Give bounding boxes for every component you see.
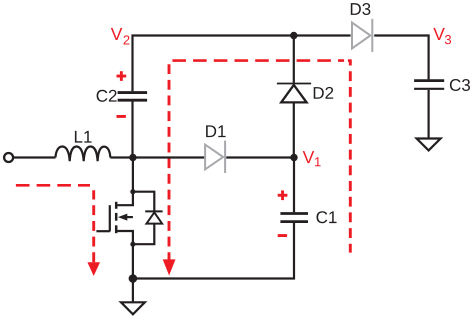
junction node Q1 drain (130, 189, 135, 194)
body diode of Q1 (145, 211, 162, 223)
node label V2 (111, 28, 123, 40)
wire D2 anode down to node V1 (293, 103, 295, 157)
transistor Q1 MOSFET source lead (117, 231, 133, 244)
transistor Q1 MOSFET body lead with arrow (127, 216, 133, 218)
red dashed big loop top horizontal (169, 59, 344, 62)
junction node Q1 source (130, 242, 135, 247)
wire L1 to D1 anode (110, 156, 205, 158)
minus sign C2 (117, 115, 126, 118)
wire C3 bottom to ground (428, 90, 430, 139)
transistor Q1 MOSFET gate lead (96, 230, 109, 232)
capacitor C3 (414, 79, 444, 82)
input terminal circle (4, 153, 13, 162)
transistor Q1 MOSFET channel segments (115, 202, 118, 233)
label C3 (450, 79, 470, 91)
wire D3 cathode to C3 top (374, 36, 428, 80)
red arrow head left loop (87, 262, 100, 276)
wire MOSFET source node to ground rail node (132, 244, 134, 278)
wire D1 cathode to node V1 (226, 156, 294, 158)
label D1 (206, 125, 226, 137)
red arrow head big loop (163, 259, 176, 275)
wire input junction down to MOSFET drain node (132, 158, 134, 192)
wire top rail from V2 corner to D3 anode, with C2 top branch (133, 36, 351, 92)
wire node V1 down to C1 top (293, 158, 295, 213)
ground symbol under C3 (417, 139, 441, 151)
label D2 (314, 87, 333, 99)
plus sign C2 (117, 71, 127, 81)
junction node V1 (290, 154, 297, 161)
junction node ground rail (129, 274, 138, 283)
wire input terminal to L1 (13, 156, 56, 158)
junction node input rail / C2 / Q1 (129, 154, 136, 161)
red dashed current path left loop horizontal (16, 184, 90, 187)
label L1 (75, 131, 92, 143)
plus sign C1 (278, 190, 288, 200)
label D3 (351, 3, 371, 15)
junction node top rail / D2 (290, 32, 297, 39)
minus sign C1 (278, 234, 287, 237)
diode D3 (352, 19, 372, 52)
diode D1 (205, 141, 225, 173)
red dashed big loop corner nub (348, 59, 352, 62)
inductor L1 (56, 147, 111, 162)
node label V3 (433, 28, 445, 40)
label C1 (317, 211, 337, 223)
label C2 (97, 90, 117, 102)
transistor Q1 MOSFET gate plate (109, 205, 111, 231)
wire body diode branch bottom (133, 224, 154, 245)
transistor Q1 MOSFET drain lead (117, 192, 133, 206)
node label V1 (303, 151, 315, 163)
wire body diode branch top (133, 192, 154, 212)
red dashed big loop right vertical (349, 61, 352, 253)
diode D2 (277, 84, 311, 103)
capacitor C1 (280, 212, 308, 215)
wire top rail junction down to D2 cathode (293, 36, 295, 83)
ground symbol under Q1 (121, 302, 145, 314)
capacitor C2 (118, 91, 148, 94)
wire ground node down to ground symbol (132, 279, 134, 303)
red dashed big loop left vertical (168, 64, 171, 262)
wire C1 bottom to bottom rail to MOSFET source node (133, 223, 294, 279)
red dashed current path left loop vertical (92, 190, 95, 262)
wire C2 bottom to input rail (131, 102, 133, 158)
